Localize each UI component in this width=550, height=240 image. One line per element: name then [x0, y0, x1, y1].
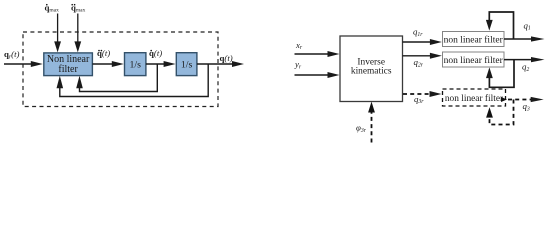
svg-text:qr(t): qr(t) — [4, 49, 20, 60]
svg-text:qmax: qmax — [71, 2, 86, 13]
svg-text:yr: yr — [294, 59, 302, 70]
svg-text:φ3r: φ3r — [356, 123, 367, 135]
svg-text:non linear filter: non linear filter — [444, 34, 504, 45]
svg-text:q1r: q1r — [413, 27, 423, 38]
svg-text:q3: q3 — [523, 101, 530, 112]
svg-text:filter: filter — [58, 64, 78, 75]
svg-text:q1: q1 — [524, 20, 531, 31]
svg-text:kinematics: kinematics — [351, 66, 392, 76]
svg-text:q(t): q(t) — [149, 48, 162, 58]
svg-text:q(t): q(t) — [220, 53, 233, 63]
svg-text:q2r: q2r — [414, 57, 424, 68]
svg-text:non linear filter: non linear filter — [444, 55, 504, 66]
svg-text:q3r: q3r — [414, 94, 424, 105]
svg-text:1/s: 1/s — [181, 59, 193, 70]
svg-text:1/s: 1/s — [129, 59, 141, 70]
svg-text:non linear filter: non linear filter — [445, 93, 504, 104]
svg-text:q(t): q(t) — [97, 48, 110, 58]
svg-text:xr: xr — [295, 40, 303, 51]
svg-text:q2: q2 — [522, 62, 529, 73]
